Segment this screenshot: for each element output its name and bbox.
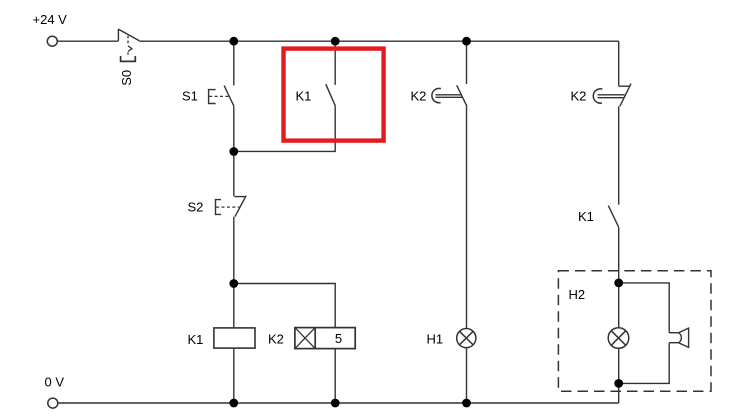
wire node A to S2 contact bbox=[233, 152, 235, 197]
wire K2 contact to K1 contact bbox=[618, 106, 620, 204]
wire 0V rail bbox=[58, 402, 619, 404]
wire node C to H2 lamp bbox=[618, 283, 620, 328]
pushbutton S1 (NO) bbox=[209, 86, 234, 107]
junction +24V rail / K2 contact branch bbox=[462, 37, 471, 46]
junction +24V rail / S1 branch bbox=[229, 37, 238, 46]
svg-text:H1: H1 bbox=[427, 332, 444, 347]
junction node C bbox=[614, 279, 623, 288]
wire K1 contact to node A bbox=[234, 106, 335, 151]
relay contact K1 (NO, in red highlight box) bbox=[326, 84, 336, 106]
wire K2 contact to H1 lamp bbox=[466, 107, 468, 329]
svg-text:5: 5 bbox=[335, 331, 342, 346]
junction 0V rail / H1 branch bbox=[462, 399, 471, 408]
junction 0V rail / K2 coil branch bbox=[331, 399, 340, 408]
relay contact K1 (NO, lower right branch) bbox=[608, 206, 618, 228]
terminal +24 V bbox=[47, 36, 57, 46]
wire buzzer to node D bbox=[619, 343, 670, 384]
svg-text:K1: K1 bbox=[188, 332, 204, 347]
svg-text:S1: S1 bbox=[182, 89, 198, 104]
wire K2 contact branch from +24V rail bbox=[466, 41, 468, 84]
wire +24V rail right segment bbox=[139, 40, 618, 42]
wire K2 counter coil to 0V rail bbox=[334, 349, 336, 403]
wire H1 lamp to 0V rail bbox=[466, 348, 468, 403]
indicator lamp H2 bbox=[608, 328, 629, 349]
switch S0 (NO, detent) bbox=[118, 29, 139, 62]
wire K1 contact to node C bbox=[618, 227, 620, 283]
svg-text:K2: K2 bbox=[411, 89, 427, 104]
wire K1 contact branch from +24V rail bbox=[334, 41, 336, 85]
terminal 0 V bbox=[48, 398, 58, 408]
junction 0V rail / K1 coil branch bbox=[229, 399, 238, 408]
junction node A bbox=[229, 147, 238, 156]
wire H2 lamp to node D bbox=[618, 348, 620, 383]
buzzer / horn bbox=[669, 328, 688, 347]
svg-text:K2: K2 bbox=[268, 332, 284, 347]
indicator lamp H1 bbox=[457, 329, 476, 348]
svg-text:H2: H2 bbox=[569, 287, 586, 302]
wire S1 contact to node A bbox=[233, 106, 235, 151]
wire node C to buzzer bbox=[619, 283, 670, 333]
wire S1 branch from +24V rail bbox=[233, 41, 235, 85]
svg-text:0 V: 0 V bbox=[45, 375, 65, 390]
svg-text:K1: K1 bbox=[578, 209, 594, 224]
relay coil K1 bbox=[214, 328, 255, 348]
junction +24V rail / K1 contact branch bbox=[331, 37, 340, 46]
svg-text:+24 V: +24 V bbox=[33, 12, 68, 27]
svg-text:S2: S2 bbox=[188, 200, 204, 215]
wire +24V rail left segment bbox=[57, 40, 118, 42]
relay contact K2 (NC, right branch) bbox=[593, 84, 631, 107]
svg-text:S0: S0 bbox=[119, 70, 134, 86]
wire K1 coil to 0V rail bbox=[233, 348, 235, 403]
wire node B to K2 counter coil bbox=[234, 284, 335, 328]
junction node B bbox=[229, 279, 238, 288]
svg-text:K2: K2 bbox=[571, 89, 587, 104]
counter relay coil K2 with preset bbox=[295, 328, 355, 349]
junction node D bbox=[614, 379, 623, 388]
highlight box around K1 contact bbox=[284, 49, 384, 141]
relay contact K2 (NO, counter output) bbox=[432, 85, 467, 106]
wire S2 contact to node B bbox=[233, 217, 235, 284]
pushbutton S2 (NC) bbox=[216, 196, 247, 217]
wire node B to K1 coil bbox=[233, 284, 235, 328]
wire node D to 0V rail bbox=[618, 383, 620, 403]
wire right branch from +24V rail to K2 contact bbox=[618, 41, 620, 86]
dashed enclosure H2 bbox=[558, 271, 711, 391]
svg-text:K1: K1 bbox=[296, 89, 312, 104]
